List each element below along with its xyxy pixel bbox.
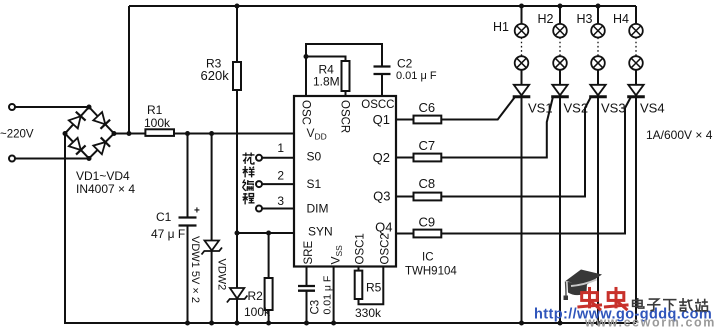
svg-text:VD1~VD4: VD1~VD4 [76,169,130,183]
svg-text:H4: H4 [613,12,629,26]
svg-text:+: + [194,206,200,217]
svg-text:VDW2: VDW2 [216,259,228,291]
svg-text:~220V: ~220V [0,129,34,141]
svg-text:C1: C1 [156,210,172,224]
svg-text:S0: S0 [307,150,322,164]
svg-text:C8: C8 [419,176,436,191]
svg-text:C2: C2 [397,57,413,71]
svg-text:47 μ F: 47 μ F [151,227,185,241]
svg-text:IN4007 × 4: IN4007 × 4 [76,182,135,196]
svg-text:R1: R1 [147,103,163,117]
svg-text:100k: 100k [244,305,271,319]
svg-text:S1: S1 [307,177,322,191]
svg-text:C7: C7 [419,138,436,153]
svg-text:IC: IC [422,252,434,264]
svg-text:C9: C9 [419,215,436,230]
svg-text:0.01 μ F: 0.01 μ F [322,276,334,315]
svg-text:VS2: VS2 [564,101,589,116]
svg-text:Q1: Q1 [373,112,390,127]
svg-text:VS1: VS1 [528,101,553,116]
svg-text:H1: H1 [493,20,509,34]
svg-text:Q2: Q2 [373,150,390,165]
svg-text:330k: 330k [355,306,382,320]
svg-text:SYN: SYN [308,225,333,239]
svg-text:OSC2: OSC2 [380,233,392,264]
svg-text:VDW1 5V × 2: VDW1 5V × 2 [189,236,201,303]
svg-text:100k: 100k [144,116,171,130]
svg-text:H3: H3 [577,12,593,26]
svg-text:VS4: VS4 [640,101,665,116]
svg-text:DIM: DIM [307,202,329,216]
svg-text:Q4: Q4 [375,220,392,235]
svg-text:OSC: OSC [300,100,312,125]
svg-text:2: 2 [277,168,284,182]
svg-text:OSC1: OSC1 [355,233,367,264]
svg-text:Q3: Q3 [373,189,390,204]
svg-text:3: 3 [277,194,284,208]
svg-text:www.eeworm.com: www.eeworm.com [584,316,714,329]
svg-text:620k: 620k [201,68,230,83]
svg-text:H2: H2 [538,12,554,26]
svg-text:C3: C3 [310,300,322,315]
svg-text:OSCC: OSCC [361,99,394,111]
svg-text:1: 1 [277,141,284,155]
svg-text:1A/600V × 4: 1A/600V × 4 [646,128,713,142]
svg-text:R5: R5 [366,281,382,295]
svg-text:VS3: VS3 [601,101,626,116]
svg-text:TWH9104: TWH9104 [405,266,457,278]
svg-text:0.01 μ F: 0.01 μ F [396,70,437,82]
svg-text:R2: R2 [248,289,264,303]
svg-text:C6: C6 [419,100,436,115]
svg-text:SRE: SRE [303,241,315,265]
svg-text:OSCR: OSCR [338,100,350,133]
svg-text:1.8M: 1.8M [313,75,340,89]
